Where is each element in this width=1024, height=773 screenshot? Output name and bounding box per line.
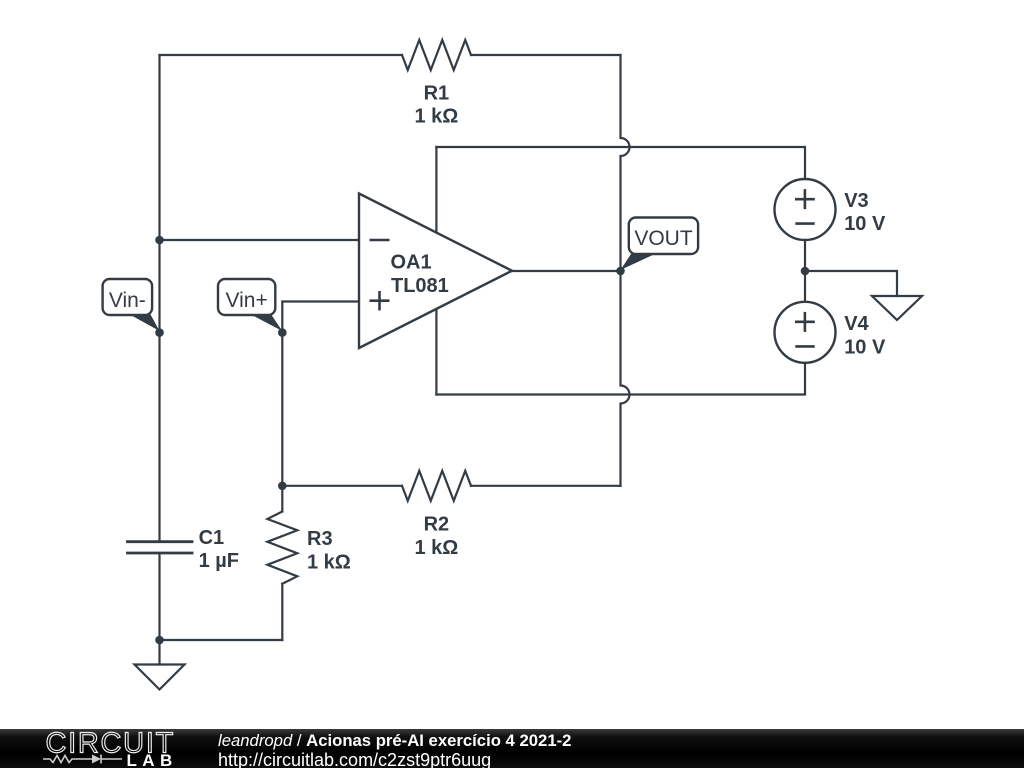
footer url line xyxy=(218,750,491,771)
junction dot Vin+ attach xyxy=(278,328,287,337)
flag VOUT box xyxy=(629,218,698,255)
wire bottom supply riser xyxy=(435,310,437,395)
V4 source circle xyxy=(775,302,836,363)
svg-text:Vin+: Vin+ xyxy=(225,289,267,312)
wire top horizontal left of R1 xyxy=(160,54,403,56)
V3 plus symbol xyxy=(795,189,815,209)
svg-text:R1: R1 xyxy=(424,83,450,105)
footer bar xyxy=(0,729,1024,768)
resistor R3 vertical xyxy=(267,512,297,584)
flag Vin- pointer xyxy=(128,314,160,332)
svg-text:1 µF: 1 µF xyxy=(199,550,239,572)
V4 plus symbol xyxy=(795,312,815,332)
svg-text:TL081: TL081 xyxy=(391,275,449,297)
svg-text:1 kΩ: 1 kΩ xyxy=(414,106,458,128)
wire minus input xyxy=(160,239,360,241)
wire top supply horizontal xyxy=(436,147,805,179)
capacitor C1 plates xyxy=(128,540,193,543)
svg-text:V3: V3 xyxy=(844,190,868,212)
svg-text:VOUT: VOUT xyxy=(634,227,693,250)
resistor R1 xyxy=(402,40,471,70)
wire output vertical lower with hop xyxy=(621,271,630,486)
svg-text:10 V: 10 V xyxy=(844,213,886,235)
op-amp minus symbol xyxy=(370,239,390,242)
wire C1 bottom xyxy=(158,553,160,640)
wire R3 bottom xyxy=(281,584,283,640)
svg-text:R2: R2 xyxy=(424,514,450,536)
CircuitLab logo resistor-diode glyph xyxy=(43,755,122,764)
svg-text:Vin-: Vin- xyxy=(109,289,146,312)
svg-text:V4: V4 xyxy=(844,313,869,335)
wire R2 right xyxy=(471,485,621,487)
wire output horizontal xyxy=(512,270,621,272)
junction dot minus input xyxy=(155,236,164,245)
wire top supply riser xyxy=(435,147,437,233)
svg-text:1 kΩ: 1 kΩ xyxy=(414,537,458,559)
wire output vertical upper with hop xyxy=(621,55,630,271)
svg-text:R3: R3 xyxy=(307,528,333,550)
svg-text:OA1: OA1 xyxy=(391,251,432,273)
wire plus input xyxy=(282,302,359,486)
svg-text:LAB: LAB xyxy=(127,751,178,768)
ground right xyxy=(872,296,922,320)
ground left xyxy=(135,665,185,690)
flag Vin+ box xyxy=(218,279,275,315)
wire bottom supply horizontal xyxy=(436,363,805,395)
resistor R2 xyxy=(402,471,471,501)
wire R2 left xyxy=(282,485,402,487)
svg-text:10 V: 10 V xyxy=(844,337,886,359)
junction dot R3 top xyxy=(278,482,287,491)
junction dot ground left xyxy=(155,636,164,645)
op-amp OA1 triangle xyxy=(359,194,512,349)
footer title line xyxy=(218,731,571,751)
wire bottom horizontal xyxy=(160,639,283,641)
wire V3 bottom stub xyxy=(804,240,806,302)
wire top-left vertical xyxy=(158,55,160,542)
junction dot supply mid xyxy=(801,267,810,276)
V3 minus symbol xyxy=(795,222,814,225)
junction dot Vin- attach xyxy=(155,328,164,337)
wire ground stub left xyxy=(158,640,160,665)
op-amp plus symbol xyxy=(370,291,390,311)
wire R3 top xyxy=(281,486,283,512)
junction dot VOUT xyxy=(616,267,625,276)
flag VOUT pointer xyxy=(621,253,659,271)
svg-text:C1: C1 xyxy=(199,527,225,549)
svg-text:1 kΩ: 1 kΩ xyxy=(307,552,351,574)
flag Vin+ pointer xyxy=(249,314,282,332)
V3 source circle xyxy=(775,179,836,240)
flag Vin- box xyxy=(103,279,153,315)
V4 minus symbol xyxy=(795,345,814,348)
wire top horizontal right of R1 xyxy=(471,54,621,56)
wire mid supply to ground xyxy=(805,271,897,296)
